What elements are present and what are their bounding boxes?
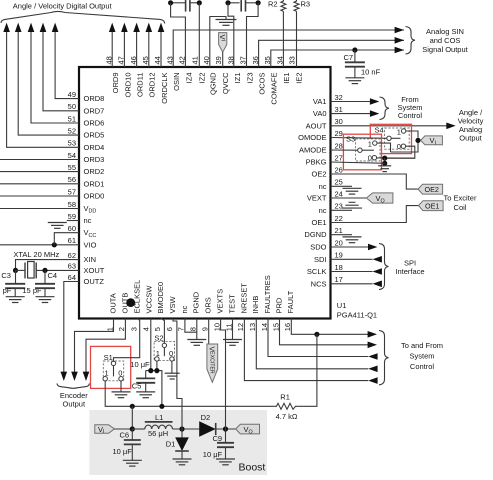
svg-text:ORD4: ORD4 [84,143,105,152]
switch S1 label [104,353,113,362]
svg-text:ORD6: ORD6 [84,119,105,128]
switch S2 body [154,341,174,360]
wire C4 to ground [44,288,46,297]
wire VIO branch to pin 60 VCC [54,233,79,245]
pin 4 label VCCSW [145,285,154,314]
arrow FAULT output [368,331,377,338]
node FAULT R1 junction [314,332,319,337]
svg-text:41: 41 [191,56,200,64]
wire pin 30 AOUT analog out [331,125,448,127]
ground symbol pin 23 inverted [342,202,362,208]
pin 47 number [117,56,126,64]
svg-text:OE2: OE2 [311,170,326,179]
crystal XTAL body [28,262,34,279]
svg-text:Output: Output [459,133,482,142]
wire pin 10 VEXTS riser [221,319,226,430]
pin 23 number [335,202,343,211]
wire pin 47 ORD10 riser [123,31,125,68]
svg-text:VIO: VIO [84,240,97,249]
node switch junction [179,426,184,431]
node XIN crystal junction [13,268,18,273]
pin 61 label VIO [84,240,97,249]
svg-text:Boost: Boost [239,461,266,473]
ground symbol pin 25 [343,188,362,194]
pin 45 number [141,56,150,64]
ground symbol PGND [187,340,206,346]
switch S3 contact 1 [373,141,377,145]
capacitor C7 label [344,53,354,62]
wire pin 35 COMAFE to analog output [271,50,404,67]
svg-text:1: 1 [397,127,401,136]
arrow OSIN analog output [395,27,404,34]
resistor R3 label [301,0,311,9]
wire pin 55 ORD2 to left edge [0,171,79,173]
wire C4 drop [44,270,46,283]
wire D2 to output node [216,428,236,430]
wire pin 6 VSW riser [173,319,182,430]
inductor L1 core bar [145,421,173,423]
pin 25 label nc [319,182,327,191]
switch S2 common contact [162,343,166,347]
svg-text:63: 63 [68,262,76,271]
capacitor value 15 pF [22,286,42,295]
wire pin 18 SCLK [331,271,373,273]
resistor R2 [281,0,286,11]
pin 2 number [117,327,126,331]
pin 7 label nc [180,305,189,313]
node boost output junction [223,426,228,431]
svg-text:VCCSW: VCCSW [145,285,154,314]
wire pin 32 VA1 from system control [331,101,372,103]
svg-text:C3: C3 [1,271,11,280]
wire pin 48 ORD9 riser [111,31,113,68]
svg-text:Control: Control [398,111,423,120]
pin 52 number [68,127,76,136]
svg-text:ORDCLK: ORDCLK [160,73,169,104]
svg-text:INHB: INHB [251,296,260,314]
label SPI Interface [395,258,424,276]
pin 40 label QGND [209,72,218,95]
flag VO boost output [236,424,260,435]
pin 21 label DGND [304,230,327,239]
svg-text:SDI: SDI [314,255,327,264]
wire C6 drop [131,429,133,440]
capacitor C4 label [48,271,58,280]
wire pin 54 ORD3 to left edge [0,159,79,161]
wire R2 to pin 34 IE1 [282,11,284,67]
svg-text:XTAL 20 MHz: XTAL 20 MHz [13,250,59,259]
wire C9 drop [225,429,227,443]
svg-text:10: 10 [212,323,221,331]
wire VI node to S3 contact1 run [391,143,419,152]
ground symbol C9 [216,459,235,465]
svg-text:C4: C4 [48,271,58,280]
capacitor C4 [35,284,55,288]
capacitor C5 value 10 uF [130,360,150,369]
svg-text:ORD2: ORD2 [84,167,105,176]
wire node C to pin 38 IZ1 [228,3,234,67]
wire pin 22 OE1 to flag [331,206,419,223]
arrow ORD10 digital output [121,23,128,32]
wire pin 52 ORD5 to output arrow [18,31,79,136]
wire pin 12 NRESET [244,319,368,381]
pin 62 label XIN [84,255,97,264]
svg-text:Control: Control [410,362,435,371]
pin 1 number [105,327,114,331]
pin 39 number [214,56,223,64]
svg-text:19: 19 [335,251,343,260]
wire junction vertical [384,158,386,163]
svg-text:49: 49 [68,90,76,99]
pin 22 label OE1 [311,218,326,227]
svg-text:IZ4: IZ4 [184,73,193,84]
U1 reference designator text [337,301,347,310]
pin 22 number [335,214,343,223]
switch S4 lever [391,137,400,139]
wire pin 53 ORD4 to output arrow [7,31,79,148]
pin 36 number [251,56,260,64]
capacitor C9 [217,443,234,447]
arrow NRESET input [368,377,377,384]
switch S4 common contact [387,136,391,140]
pin 38 label IZ1 [233,73,242,84]
diode D2 [199,421,216,436]
capacitor C5 label [132,382,142,391]
svg-text:VSW: VSW [168,295,177,313]
pin 24 label VEXT [307,194,327,203]
svg-text:Interface: Interface [395,267,424,276]
arrow ORD9 digital output [109,23,116,32]
pin 17 label NCS [311,279,327,288]
svg-text:OE2: OE2 [425,185,439,194]
switch S4 contact 0 [401,144,405,148]
svg-text:R2: R2 [268,0,278,9]
svg-text:D1: D1 [166,440,176,449]
svg-text:IZ3: IZ3 [245,73,254,84]
pin 19 label SDI [314,255,327,264]
flag VI supply at pin 39 QVCC [218,33,227,53]
wire pin 58 VDD to left edge [0,208,79,210]
arrow OUTB encoder output [83,372,90,381]
wire pin 36 OCOS to analog output [259,40,404,67]
pin 54 number [68,151,76,160]
svg-text:26: 26 [335,165,343,174]
capacitor C3 [5,284,25,288]
pin 60 label VCC [84,228,97,239]
pin 41 number [191,56,200,64]
svg-text:OE1: OE1 [425,202,439,211]
resistor R1 [275,403,299,409]
switch S2 position 1 label [156,349,160,358]
svg-text:VA0: VA0 [313,109,327,118]
arrow NCS input [373,281,382,288]
svg-text:AMODE: AMODE [299,146,327,155]
svg-text:To and From: To and From [401,341,443,350]
svg-text:0: 0 [118,368,122,377]
pin 13 number [248,323,257,331]
pin 37 label IZ3 [245,73,254,84]
switch S3 lever [362,149,374,151]
wire pin 7 nc to PGND [185,319,197,333]
wire S4 contact0 to ground run [387,146,415,158]
switch S2 position 0 label [169,349,173,358]
pin 50 label ORD7 [84,106,105,115]
pin 6 label VSW [168,295,177,313]
switch S1 common contact [111,361,115,365]
pin 45 label ORD12 [148,73,157,98]
switch S3 position 1 label [368,139,372,148]
svg-text:IZ2: IZ2 [197,73,206,84]
pin 56 number [68,175,76,184]
node VIO junction [52,242,57,247]
wire node A to pin 42 IZ4 [171,3,186,67]
pin 16 number [283,323,292,331]
switch S4 position 0 label [397,142,401,151]
pin 49 number [68,90,76,99]
pin 1 label OUTA [108,293,117,313]
svg-text:C7: C7 [344,53,354,62]
svg-text:DGND: DGND [304,230,327,239]
pin 21 number [335,226,343,235]
capacitor C7 [345,62,365,66]
brace to-and-from system control [379,331,389,385]
pin 34 label IE1 [282,73,291,84]
pin 40 number [202,56,211,64]
pin 34 number [275,56,284,64]
svg-text:XIN: XIN [84,255,97,264]
node A junction [168,0,173,5]
arrow ORD6 digital output [28,23,35,32]
svg-text:VA1: VA1 [313,97,327,106]
arrow OCOS analog output [395,37,404,44]
wire pin 59 nc stub [67,220,79,222]
ground symbol pin 59 nc [48,223,67,229]
pin 8 number [189,327,198,331]
pin 28 label AMODE [299,146,327,155]
switch S3 body [356,139,380,161]
pin 9 number [201,327,210,331]
wire cap to node D [246,2,259,4]
svg-text:NCS: NCS [311,279,327,288]
svg-text:57: 57 [68,187,76,196]
svg-text:IZ1: IZ1 [233,73,242,84]
pin 2 label OUTB [120,293,129,314]
wire IZ1 cap top rail [228,2,240,4]
capacitor C6 [124,440,141,444]
svg-text:To Exciter: To Exciter [444,194,477,203]
wire pin 40 QGND to ground [210,17,226,68]
pin 44 label ORDCLK [160,73,169,104]
callout box S3 [343,134,381,170]
svg-text:1: 1 [368,139,372,148]
pin 53 label ORD4 [84,143,105,152]
svg-text:23: 23 [335,202,343,211]
switch S2 label [154,333,163,342]
inductor L1 value 56 uH [148,429,168,438]
svg-text:ORD11: ORD11 [136,73,145,97]
pin 26 number [335,165,343,174]
wire pin 2 OUTB to encoder arrow [86,319,125,373]
svg-text:ORD12: ORD12 [148,73,157,98]
callout box S4 [370,124,411,153]
pin 42 label IZ4 [184,73,193,84]
wire pin 17 NCS [331,283,373,285]
pin 31 label VA0 [313,109,327,118]
wire rail to boost drop [131,406,133,429]
pin 54 label ORD3 [84,155,105,164]
wire pin 24 VEXT [331,197,367,199]
pin 10 number [212,323,221,331]
node COMAFE C7 junction [352,47,357,52]
pin 60 number [68,224,76,233]
switch S4 body [385,128,410,149]
node PBKG lower junction [382,161,387,166]
node VI junction [415,138,420,143]
svg-text:39: 39 [214,56,223,64]
ground symbol C3 [6,297,25,303]
ground symbol TEST [223,340,242,346]
U1 part number PGA411-Q1 text [337,310,377,319]
pin 47 label ORD10 [123,73,132,98]
wire pin 13 INHB [256,319,368,369]
label Analog SIN and COS Signal Output [422,27,468,54]
pin 30 label AOUT [306,121,327,130]
ground symbol C7 [345,78,364,84]
switch S3 common contact [358,148,362,152]
svg-text:10 μF: 10 μF [113,447,133,456]
pin 44 number [153,56,162,64]
ground symbol C6 [123,460,142,466]
pin 50 number [68,102,76,111]
pin 51 label ORD6 [84,119,105,128]
svg-text:ORD3: ORD3 [84,155,105,164]
pin 43 number [165,56,174,64]
svg-text:15: 15 [271,323,280,331]
pin 48 label ORD9 [111,73,120,94]
wire R3 to pin 33 IE2 [296,11,298,67]
switch S2 contact 0 [170,357,174,361]
wire cap to node B [190,2,199,4]
wire C5 to ground [145,383,147,392]
svg-text:22: 22 [335,214,343,223]
svg-text:27: 27 [335,153,343,162]
pin 39 label QVCC [221,72,230,94]
capacitor integrator IZ4-IZ2 [186,0,190,12]
svg-text:0: 0 [368,154,372,163]
pin 62 number [68,251,76,260]
svg-text:Angle / Velocity Digital Outpu: Angle / Velocity Digital Output [13,1,113,10]
svg-text:ORS: ORS [204,297,213,313]
svg-text:XOUT: XOUT [84,266,105,275]
pin 15 number [271,323,280,331]
node C junction [225,0,230,5]
pin 5 number [153,327,162,331]
pin 42 number [178,56,187,64]
pin 1 indicator dot [126,298,135,307]
label To and From System Control [401,341,443,371]
switch S3 position 0 label [368,154,372,163]
svg-text:4.7 kΩ: 4.7 kΩ [276,412,298,421]
pin 53 number [68,139,76,148]
svg-text:28: 28 [335,141,343,150]
arrow OUTA encoder output [71,372,78,381]
resistor R1 value 4.7 kOhm [276,412,298,421]
wire pin 29 OMODE to S4 common [331,137,387,140]
wire node B to pin 41 IZ2 [198,3,200,67]
crystal XTAL plates [25,263,36,279]
label To Exciter Coil [444,194,477,213]
wire D1 drop [181,429,183,437]
svg-text:pF: pF [3,286,12,295]
pin 56 label ORD1 [84,179,105,188]
wire pin 26 OE2 to flag [331,174,419,189]
wire pin 44 ORDCLK riser [160,31,162,68]
pin 11 label TEST [227,294,236,314]
svg-text:61: 61 [68,236,76,245]
pin 11 number [224,324,233,332]
wire pin 20 SDO [331,246,370,248]
node VCCSW junction 2 [154,368,159,373]
switch S3 contact 0 [372,156,376,160]
svg-text:60: 60 [68,224,76,233]
svg-text:TEST: TEST [227,294,236,314]
pin 27 label PBKG [306,158,327,167]
pin 14 label FAULTRES [263,275,272,313]
svg-text:21: 21 [335,226,343,235]
svg-text:SPI: SPI [404,258,416,267]
arrow OUTZ encoder output [61,372,68,381]
pin 23 label nc [319,206,327,215]
pin 41 label IZ2 [197,73,206,84]
wire pin 27 PBKG [331,162,385,163]
pin 31 number [335,105,343,114]
wire VI flag to C6 node [114,428,132,430]
switch S4 position 1 label [397,127,401,136]
capacitor C9 label [213,434,223,443]
resistor R3 [294,0,299,11]
svg-text:51: 51 [68,114,76,123]
node B junction [197,0,202,5]
label Angle / Velocity Analog Output [458,108,484,142]
pin 30 number [335,117,343,126]
wire pin 31 VA0 from system control [331,113,372,115]
node PBKG upper junction [382,156,387,161]
svg-text:D2: D2 [201,413,211,422]
pin 12 number [236,323,245,331]
svg-text:ORD7: ORD7 [84,106,105,115]
pin 29 number [335,129,343,138]
flag VI at S4 [421,136,443,147]
svg-text:ORD10: ORD10 [123,73,132,98]
switch S3 label [346,135,355,144]
wire pin 45 ORD12 riser [148,31,150,68]
wire C7 junction to cap [354,50,356,62]
pin 33 number [288,56,297,64]
pin 35 label COMAFE [270,73,279,105]
pin 55 label ORD2 [84,167,105,176]
arrow PRD output [368,342,377,349]
capacitor C6 value 10 uF [113,447,133,456]
label Angle / Velocity Digital Output [13,1,113,10]
pin 49 label ORD8 [84,94,105,103]
svg-text:ORD5: ORD5 [84,131,105,140]
pin 58 number [68,200,76,209]
wire pin 25 nc stub [331,185,353,187]
arrow ORD5 digital output [15,23,22,32]
svg-text:QVCC: QVCC [221,72,230,94]
pin 10 label VEXTS [216,289,225,314]
switch S1 contact 0 [119,377,123,381]
